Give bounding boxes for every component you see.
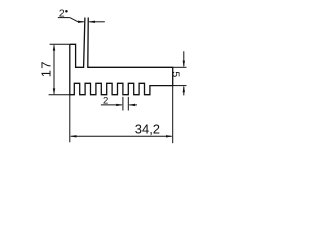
dimension 5: lower arrow shaft xyxy=(183,87,185,96)
dimension 17: up arrowhead xyxy=(53,44,55,51)
dimension 2deg: left-pointing arrowhead at fin right edge xyxy=(88,21,95,23)
dimension 2 tooth: right extension tick xyxy=(127,97,129,111)
dimension 2 tooth: right-pointing arrowhead xyxy=(116,104,123,106)
dimension 2deg: underline under text xyxy=(58,17,70,19)
dimension 34,2: horizontal dimension line xyxy=(71,135,172,137)
dimension 34,2: right extension line xyxy=(172,86,174,144)
dimension 5: down arrowhead xyxy=(183,61,185,68)
dimension 2deg: right-pointing arrowhead at fin left edge xyxy=(78,21,85,23)
svg-text:17: 17 xyxy=(38,60,53,77)
dimension 5: top extension line xyxy=(173,66,187,68)
dimension 2deg: left dimension line segment xyxy=(78,21,84,23)
dimension 17: bottom extension line xyxy=(49,94,70,96)
dimension 5: bottom extension line xyxy=(173,85,187,87)
dimension 2deg: degree dot xyxy=(65,10,68,13)
dimension 17: down arrowhead xyxy=(53,88,55,95)
svg-text:2: 2 xyxy=(103,96,108,107)
dimension 2 tooth: left extension tick xyxy=(122,97,124,111)
dimension 34,2: left extension line xyxy=(69,95,71,143)
dimension 2 tooth: right dimension line segment xyxy=(129,104,137,106)
profile outline: extruded heatsink cross-section with 7 bottom teeth xyxy=(70,18,173,95)
dimension 17: vertical dimension line xyxy=(53,45,55,93)
dimension 5: upper arrow shaft xyxy=(183,51,185,66)
svg-text:34,2: 34,2 xyxy=(135,121,160,136)
dimension 2 tooth: left-pointing arrowhead xyxy=(128,104,135,106)
dimension 2deg: right dimension line segment xyxy=(89,21,105,23)
dimension 34,2: right arrowhead xyxy=(166,135,173,137)
dimension 17: top extension line xyxy=(50,43,70,45)
svg-text:5: 5 xyxy=(169,71,181,77)
dimension 34,2: left arrowhead xyxy=(70,135,77,137)
dimension 5: up arrowhead xyxy=(183,86,185,93)
dimension 2 tooth: left dimension line with underline of text xyxy=(101,104,122,106)
dimension 2deg: slanted leader line xyxy=(70,18,78,22)
